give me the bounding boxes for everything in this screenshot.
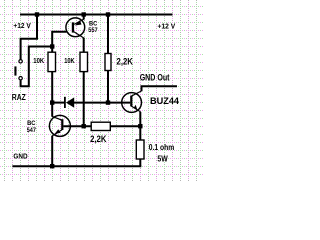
- svg-text:BC: BC: [27, 120, 35, 127]
- svg-text:557: 557: [88, 27, 98, 34]
- svg-text:10K: 10K: [33, 58, 44, 65]
- svg-text:+12 V: +12 V: [158, 22, 176, 31]
- svg-text:GND: GND: [13, 152, 28, 161]
- svg-text:GND Out: GND Out: [140, 73, 170, 83]
- svg-text:547: 547: [27, 127, 37, 134]
- svg-text:BUZ44: BUZ44: [150, 96, 180, 107]
- svg-text:2,2K: 2,2K: [90, 134, 107, 144]
- svg-text:2,2K: 2,2K: [117, 57, 134, 67]
- svg-text:10K: 10K: [64, 58, 75, 65]
- svg-text:+12 V: +12 V: [13, 21, 30, 30]
- svg-text:5W: 5W: [157, 154, 167, 164]
- svg-text:RAZ: RAZ: [12, 93, 26, 102]
- svg-text:0.1 ohm: 0.1 ohm: [149, 142, 175, 152]
